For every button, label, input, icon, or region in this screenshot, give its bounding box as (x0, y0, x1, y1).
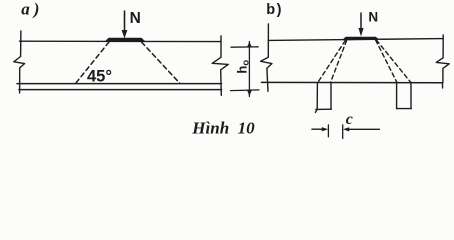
svg-text:45°: 45° (87, 67, 112, 85)
svg-text:N: N (130, 10, 141, 27)
top line of beam a (20, 40, 222, 42)
dashed spread line b: plate right to right rib inner corner (376, 40, 397, 82)
svg-text:b): b) (266, 2, 283, 18)
dimension c left tick (327, 125, 329, 137)
svg-text:Hình 10: Hình 10 (191, 118, 255, 137)
dashed spread line b: plate right to right rib outer corner (376, 40, 410, 82)
bottom line 1 of beam a (17, 83, 222, 85)
bearing plate a (106, 38, 145, 41)
top line of slab b (268, 39, 443, 41)
right edge of slab b with break (436, 35, 449, 83)
dimension c left leader with arrowhead (312, 127, 328, 131)
bottom line 2 of beam a (19, 89, 222, 91)
right edge of beam a with break (212, 36, 228, 95)
dimension h0 top arrowhead (247, 42, 252, 48)
dimension c right leader with arrowhead (343, 127, 380, 131)
dashed spread line b: plate left to left rib inner corner (331, 41, 347, 83)
svg-text:a): a) (21, 0, 43, 18)
dimension h0 bottom arrowhead (247, 90, 252, 96)
bottom line of slab b (262, 81, 443, 83)
load arrow N (diagram a) (122, 11, 128, 38)
bearing plate b (343, 37, 378, 40)
dimension c right tick (342, 125, 344, 139)
dimension h0 bottom tick bar (231, 89, 260, 92)
left edge of beam a with break (14, 31, 25, 93)
svg-text:ho: ho (234, 60, 251, 74)
dashed spread line b: plate left to left rib outer corner (318, 41, 345, 83)
dashed 45deg line right (a) (142, 42, 181, 84)
right end stub below slab b (442, 83, 444, 88)
dashed 45deg line left (a) (76, 42, 110, 84)
left rib of b (315, 83, 331, 113)
svg-text:N: N (368, 10, 378, 25)
right rib of b (397, 83, 412, 109)
svg-text:c: c (346, 111, 353, 128)
load arrow N (diagram b) (358, 13, 363, 36)
dimension h0 top tick bar (231, 46, 258, 48)
dimension h0 vertical line (248, 42, 250, 97)
left edge of slab b with break (261, 24, 272, 91)
